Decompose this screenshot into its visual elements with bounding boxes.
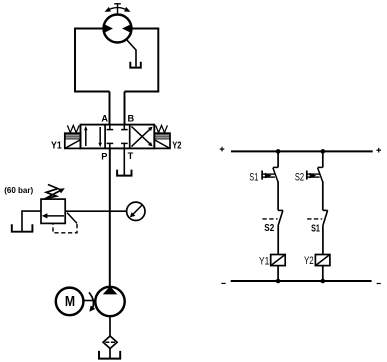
svg-text:Y2: Y2 (304, 255, 314, 267)
svg-text:S2: S2 (264, 223, 274, 234)
svg-text:S1: S1 (249, 172, 258, 184)
svg-text:(60 bar): (60 bar) (4, 185, 33, 195)
svg-text:P: P (101, 152, 107, 162)
svg-text:S1: S1 (311, 223, 320, 234)
svg-text:Y1: Y1 (51, 141, 62, 152)
svg-text:Y1: Y1 (259, 255, 269, 267)
svg-text:S2: S2 (295, 172, 304, 184)
svg-text:A: A (101, 113, 108, 123)
svg-text:B: B (128, 114, 135, 124)
svg-text:M: M (65, 294, 75, 310)
svg-text:T: T (128, 151, 134, 161)
svg-text:Y2: Y2 (172, 140, 181, 151)
